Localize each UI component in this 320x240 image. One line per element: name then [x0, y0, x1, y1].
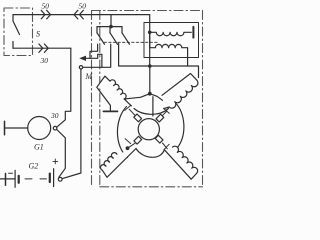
connector chevrons on 50 wire (left-pointing) — [74, 10, 83, 19]
node: junction relay output — [148, 64, 152, 68]
svg-text:30: 30 — [40, 56, 49, 65]
motor housing left arc — [117, 107, 127, 158]
brush SW pigtail to housing — [125, 139, 135, 148]
battery left cell plates — [14, 170, 16, 187]
armature (commutator circle) — [138, 119, 159, 140]
svg-text:30: 30 — [50, 111, 59, 120]
wire down to motor — [149, 66, 151, 94]
contact upper terminals — [97, 27, 122, 33]
svg-text:M: M — [85, 72, 94, 81]
contact lower terminal B wire to terminal M — [83, 44, 111, 67]
contact lower terminal A wire — [90, 44, 98, 58]
wire 50 (top) — [13, 15, 150, 33]
connector chevrons on 50 wire (right-pointing) — [41, 10, 50, 19]
field coil SE (scalloped arm) — [164, 146, 197, 179]
battery continuation dashes — [25, 178, 47, 180]
svg-text:G1: G1 — [34, 143, 44, 152]
motor housing right arc — [176, 103, 184, 150]
relay box — [144, 23, 199, 58]
wire branch to NW field coil — [124, 94, 150, 99]
connector chevrons on 30 wire — [39, 44, 48, 52]
unit boundary dash-dot divider 1 — [91, 11, 93, 188]
node: windings common junction — [148, 31, 152, 35]
brush NW pigtail and terminal tick — [125, 105, 135, 115]
battery minus sign — [9, 172, 13, 174]
mechanical link (dashed) — [104, 41, 158, 43]
contact lower terminal C wire to relay output — [119, 44, 199, 78]
field coil SW (scalloped arm) — [100, 149, 136, 178]
svg-text:S: S — [36, 30, 40, 39]
switch S enclosure (dash-dot box) — [4, 8, 33, 56]
wire G1 terminal 30 to battery plus — [57, 130, 66, 178]
wire to motor housing — [152, 97, 154, 116]
battery right cell plates — [49, 174, 51, 182]
ground (chassis) from NW field coil — [97, 88, 110, 111]
brush NW — [134, 114, 142, 122]
field coil NE (scalloped arm) — [162, 74, 198, 109]
G1 left terminal bar — [4, 121, 6, 134]
relay winding 1 (pull-in) — [150, 32, 192, 35]
G1 left wire — [5, 127, 28, 129]
wire branch to NE field coil — [150, 94, 163, 101]
svg-text:50: 50 — [79, 2, 87, 11]
node: junction dot on contact bus — [109, 25, 113, 29]
field coil NW inner lead — [124, 99, 131, 106]
frame bottom dash-dot — [100, 186, 203, 188]
relay winding 2 (hold-in) — [150, 32, 188, 66]
brush SE — [155, 135, 163, 143]
field coil NW (scalloped arm) — [97, 76, 126, 99]
field coil NE inner lead — [164, 107, 169, 109]
wire 30 vertical down with jog — [57, 48, 71, 127]
node: junction at motor feed — [148, 92, 152, 96]
motor housing top arc — [134, 109, 169, 115]
contactor bus — [97, 26, 122, 28]
brush SW — [134, 136, 142, 144]
generator G1 — [28, 117, 51, 140]
terminal M (small circle) — [79, 66, 82, 69]
arrow to M (continuation arrow) — [85, 54, 102, 67]
relay core bar — [192, 27, 194, 38]
G1 terminal 30 (small circle) — [53, 126, 57, 130]
switch S — [13, 15, 20, 49]
node: SW brush ground junction dot — [126, 146, 130, 150]
wire stub from 50 wire down to contact bus — [110, 15, 112, 27]
motor housing bottom arc — [136, 149, 164, 158]
wire relay common down — [149, 32, 151, 66]
frame right dash-dot — [202, 11, 204, 188]
battery plus terminal (small circle) — [58, 177, 62, 181]
wire battery plus to terminal M — [62, 69, 81, 179]
unit boundary dash-dot divider 2 — [99, 11, 101, 188]
frame top dash-dot — [92, 10, 203, 12]
battery minus wire and terminal bar — [0, 178, 15, 180]
svg-text:G2: G2 — [29, 162, 39, 171]
brush NE pigtail and terminal tick — [162, 108, 169, 115]
battery plus sign — [53, 159, 58, 164]
wire 30 (from switch) — [13, 47, 71, 49]
contact blades — [97, 33, 130, 45]
brush SE pigtail and terminal tick — [163, 143, 170, 150]
svg-text:50: 50 — [42, 2, 50, 11]
brush NE — [156, 114, 164, 122]
